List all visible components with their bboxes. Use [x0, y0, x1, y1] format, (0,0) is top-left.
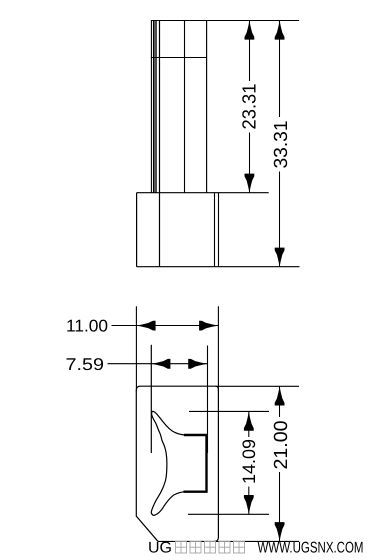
- top view: base right inner edge: [214, 193, 216, 267]
- svg-text:UG: UG: [148, 540, 172, 557]
- cavity thick top edge: [184, 434, 208, 436]
- top view: top edge / extension line: [151, 20, 299, 22]
- dimension 33.31 line upper segment: [279, 21, 281, 118]
- arrowhead 23.31 top (up): [245, 21, 255, 40]
- arrowhead 14.09 top (up): [244, 412, 254, 431]
- bottom view bottom edge / extension line for 21.00: [158, 540, 299, 542]
- top view: left wall line 2: [153, 21, 155, 193]
- top view: base left edge: [136, 193, 138, 267]
- svg-text:7.59: 7.59: [66, 355, 105, 374]
- extension line left (7.59): [150, 345, 152, 453]
- extension line right (11.00): [217, 306, 219, 391]
- dimension 21.00 line lower segment: [279, 472, 281, 541]
- arrowhead 7.59 left: [151, 359, 170, 369]
- cavity thick bottom edge: [184, 491, 208, 493]
- dimension 14.09 line lower segment: [248, 487, 250, 515]
- bottom view outline (rounded rect with chamfered bottom-left corner): [136, 386, 218, 541]
- top view: left wall line 1: [150, 21, 152, 193]
- top view: left wall line 4: [155, 21, 157, 193]
- dimension 14.09 line upper segment: [248, 411, 250, 437]
- top view: base right outer edge: [218, 193, 220, 267]
- watermark CJK glyph marks: [176, 542, 245, 554]
- arrowhead 21.00 top (up): [275, 387, 285, 406]
- arrowhead 23.31 bottom (down): [245, 174, 255, 193]
- dimension 33.31 line lower segment: [279, 172, 281, 267]
- arrowhead 14.09 bottom (down): [244, 495, 254, 514]
- watermark: UG爱好者论坛 WWW.UGSNX.COM: [148, 540, 364, 557]
- extension line bottom (14.09): [188, 513, 269, 515]
- arrowhead 11.00 right: [199, 321, 218, 331]
- dimension 11.00 line with leader: [112, 325, 219, 327]
- extension line left (11.00): [135, 306, 137, 391]
- extension line right (7.59): [207, 346, 209, 454]
- dimension 7.59 line with leader: [108, 363, 208, 365]
- svg-text:14.09: 14.09: [239, 439, 259, 484]
- arrowhead 33.31 top (up): [275, 21, 285, 40]
- dimension 23.31 line lower segment: [249, 133, 251, 193]
- svg-text:21.00: 21.00: [271, 421, 292, 470]
- svg-text:33.31: 33.31: [271, 121, 292, 169]
- bottom view top edge extension line for 21.00: [216, 385, 300, 387]
- arrowhead 21.00 bottom (down), drawn over watermark: [275, 522, 285, 541]
- cavity profile (horn shaped slot) thin outline: [151, 411, 206, 515]
- arrowhead 7.59 right: [188, 359, 207, 369]
- top view: left edge long line down to base bottom: [159, 21, 161, 267]
- top view: base bottom edge / extension line: [137, 266, 300, 268]
- arrowhead 11.00 left: [137, 321, 156, 331]
- top view: right vertical edge of tall section: [206, 21, 208, 193]
- arrowhead 33.31 bottom (down): [275, 248, 285, 267]
- top view: base top edge / extension line: [137, 192, 269, 194]
- extension line top (14.09): [189, 410, 269, 412]
- dimension 23.31 line upper segment: [249, 21, 251, 82]
- top view: horizontal step edge: [151, 57, 207, 59]
- top view: middle vertical edge: [184, 21, 186, 193]
- dimension 21.00 line upper segment: [279, 386, 281, 417]
- top view: left wall line 3: [154, 21, 156, 193]
- svg-text:WWW.UGSNX.COM: WWW.UGSNX.COM: [258, 540, 364, 557]
- svg-text:11.00: 11.00: [66, 317, 108, 336]
- cavity thick right edge: [205, 435, 207, 492]
- svg-text:23.31: 23.31: [240, 84, 261, 130]
